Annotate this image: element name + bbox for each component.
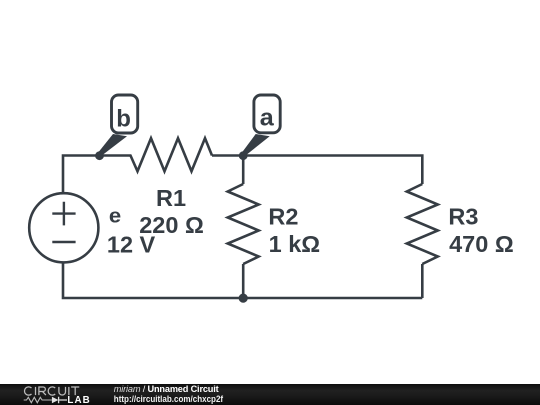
svg-text:1 kΩ: 1 kΩ (269, 231, 321, 257)
svg-text:470 Ω: 470 Ω (449, 231, 514, 257)
svg-text:e: e (109, 206, 121, 228)
bottom junction dot (239, 294, 248, 303)
svg-text:LAB: LAB (67, 395, 90, 405)
voltage source V1 circle (29, 193, 98, 262)
svg-text:220 Ω: 220 Ω (139, 212, 204, 238)
wire R3 bottom lead (421, 264, 424, 298)
voltage source plus sign (52, 202, 75, 226)
callout b box (112, 95, 138, 133)
logo diode symbol (52, 397, 59, 404)
svg-text:R3: R3 (448, 204, 478, 230)
node a dot (239, 151, 248, 160)
svg-text:R2: R2 (268, 204, 298, 230)
svg-text:R1: R1 (156, 185, 186, 211)
callout b tail (99, 134, 127, 155)
svg-text:miriam / Unnamed Circuit: miriam / Unnamed Circuit (114, 384, 219, 394)
resistor R3 (407, 184, 438, 264)
svg-text:a: a (260, 105, 275, 132)
callout a box (254, 95, 280, 133)
node b dot (95, 151, 104, 160)
wire bottom rail with left riser from source bottom (63, 263, 422, 298)
wire top-left rail with left drop (63, 156, 132, 194)
resistor R2 (228, 184, 259, 264)
wire R2 top lead (242, 156, 245, 184)
logo resistor zigzag symbol (24, 397, 52, 402)
wire R2 bottom lead (242, 264, 245, 298)
svg-text:http://circuitlab.com/chxcp2f: http://circuitlab.com/chxcp2f (114, 394, 224, 404)
callout a tail (243, 134, 270, 155)
logo CIRCUIT wordmark (24, 387, 79, 395)
footer bar (0, 384, 540, 405)
resistor R1 (131, 138, 213, 171)
voltage source minus sign (52, 241, 75, 243)
svg-text:b: b (116, 105, 131, 132)
wire top rail right of R1 to R3 drop (212, 156, 422, 185)
